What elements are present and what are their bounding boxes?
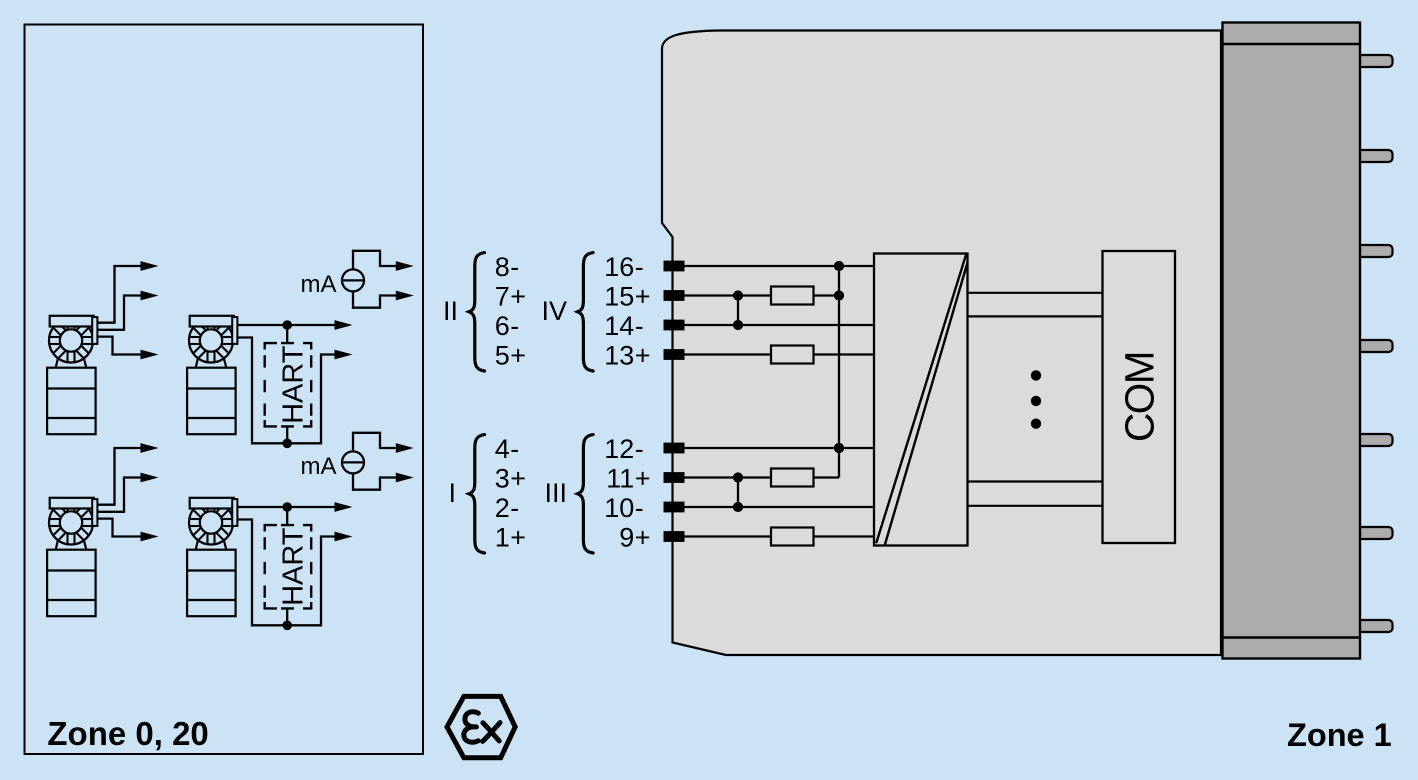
svg-text:II: II xyxy=(443,296,458,326)
svg-text:5: 5 xyxy=(495,340,510,370)
svg-text:III: III xyxy=(544,478,567,508)
svg-text:10: 10 xyxy=(604,493,634,523)
svg-text:+: + xyxy=(635,463,651,493)
svg-text:-: - xyxy=(510,434,519,464)
svg-text:9: 9 xyxy=(619,522,634,552)
svg-text:3: 3 xyxy=(495,463,510,493)
svg-text:+: + xyxy=(635,522,651,552)
svg-text:+: + xyxy=(510,281,526,311)
svg-text:12: 12 xyxy=(604,434,634,464)
svg-text:1: 1 xyxy=(495,522,510,552)
svg-text:+: + xyxy=(635,340,651,370)
svg-text:-: - xyxy=(635,311,644,341)
svg-text:16: 16 xyxy=(604,252,634,282)
svg-text:15: 15 xyxy=(604,281,634,311)
svg-text:6: 6 xyxy=(495,311,510,341)
svg-text:-: - xyxy=(510,311,519,341)
svg-text:-: - xyxy=(635,434,644,464)
svg-text:+: + xyxy=(510,522,526,552)
svg-text:HART: HART xyxy=(278,527,310,606)
svg-text:-: - xyxy=(635,252,644,282)
svg-text:+: + xyxy=(635,281,651,311)
svg-text:COM: COM xyxy=(1117,352,1163,442)
svg-text:I: I xyxy=(448,478,456,508)
svg-text:-: - xyxy=(635,493,644,523)
svg-text:13: 13 xyxy=(604,340,634,370)
svg-text:8: 8 xyxy=(495,252,510,282)
svg-text:4: 4 xyxy=(495,434,510,464)
svg-text:-: - xyxy=(510,493,519,523)
svg-text:+: + xyxy=(510,340,526,370)
svg-text:14: 14 xyxy=(604,311,634,341)
svg-text:+: + xyxy=(510,463,526,493)
svg-text:Zone 1: Zone 1 xyxy=(1287,717,1392,753)
svg-text:7: 7 xyxy=(495,281,510,311)
svg-text:mA: mA xyxy=(301,453,337,480)
svg-text:mA: mA xyxy=(301,271,337,298)
svg-text:-: - xyxy=(510,252,519,282)
svg-text:11: 11 xyxy=(606,463,634,493)
svg-text:IV: IV xyxy=(541,296,567,326)
svg-text:HART: HART xyxy=(278,345,310,424)
svg-text:2: 2 xyxy=(495,493,510,523)
svg-text:Zone 0, 20: Zone 0, 20 xyxy=(47,715,208,752)
